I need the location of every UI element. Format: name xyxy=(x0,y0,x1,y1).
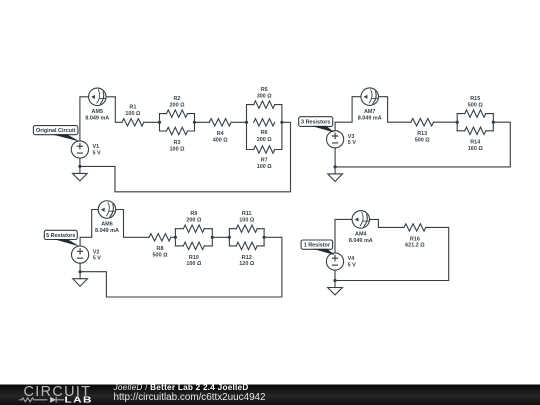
svg-text:100 Ω: 100 Ω xyxy=(257,164,273,170)
svg-text:R14: R14 xyxy=(470,140,480,146)
node L xyxy=(262,236,265,239)
node A xyxy=(158,121,161,124)
svg-text:300 Ω: 300 Ω xyxy=(257,94,273,100)
svg-text:http://circuitlab.com/c6ttx2uu: http://circuitlab.com/c6ttx2uuc4942 xyxy=(114,392,266,403)
svg-text:R11: R11 xyxy=(242,211,252,217)
resistor R13 500 &#937; xyxy=(411,119,434,144)
wire node J to node K xyxy=(212,236,229,238)
svg-text:R12: R12 xyxy=(242,255,252,261)
svg-text:LAB: LAB xyxy=(65,396,93,405)
svg-text:5 V: 5 V xyxy=(93,256,102,262)
wire return loop circuit 2 xyxy=(335,122,510,167)
wire V1 bottom xyxy=(79,158,81,166)
svg-text:V4: V4 xyxy=(348,256,355,262)
svg-text:200 Ω: 200 Ω xyxy=(257,137,273,143)
voltage source V1 5 V xyxy=(71,141,101,158)
svg-text:V3: V3 xyxy=(348,134,355,140)
resistor R7 100 Ohm xyxy=(247,146,282,170)
resistor R10 100 &#937; xyxy=(175,242,212,267)
svg-text:5 Resistors: 5 Resistors xyxy=(46,233,75,239)
resistor R3 100 &#937; xyxy=(160,127,195,152)
wire parallel frame R9/R10 xyxy=(174,229,176,246)
node C xyxy=(245,121,248,124)
resistor R12 120 &#937; xyxy=(229,242,264,267)
svg-text:R2: R2 xyxy=(174,96,181,102)
svg-text:100 Ω: 100 Ω xyxy=(125,111,141,117)
svg-text:R15: R15 xyxy=(470,96,480,102)
wire V3 to AM7 xyxy=(335,97,361,131)
ammeter AM6 8.049 mA xyxy=(95,201,119,234)
svg-text:R13: R13 xyxy=(417,131,427,137)
resistor R15 500 &#937; xyxy=(457,96,493,118)
resistor R8 500 &#937; xyxy=(149,234,171,259)
label 3 Resistors xyxy=(299,117,335,133)
ground xyxy=(328,167,343,182)
wire V4 bottom xyxy=(334,270,336,280)
svg-text:AM4: AM4 xyxy=(355,232,366,238)
svg-text:5 V: 5 V xyxy=(348,140,357,146)
label 1 Resistor xyxy=(301,240,335,255)
resistor R16 621.2 &#937; xyxy=(404,224,426,249)
wire R1 to node A xyxy=(144,121,160,123)
node H xyxy=(333,165,336,168)
voltage source V2 5 V xyxy=(72,246,102,263)
svg-text:R9: R9 xyxy=(190,211,197,217)
svg-text:500 Ω: 500 Ω xyxy=(468,102,484,108)
svg-text:V2: V2 xyxy=(93,249,100,255)
wire return loop circuit 1 xyxy=(80,122,291,192)
svg-text:5 V: 5 V xyxy=(93,150,102,156)
svg-text:R7: R7 xyxy=(261,157,268,163)
svg-text:1 Resistor: 1 Resistor xyxy=(304,243,331,249)
svg-text:JoelleD / Better Lab 2 2.4 Joe: JoelleD / Better Lab 2 2.4 JoelleD xyxy=(113,383,249,392)
ammeter AM5 8.049 mA xyxy=(85,88,109,121)
resistor R11 100 &#937; xyxy=(229,211,264,232)
ground xyxy=(328,281,343,296)
wire return loop circuit 4 xyxy=(335,227,449,280)
ammeter AM7 8.049 mA xyxy=(358,88,382,121)
wire R13 to node F xyxy=(434,121,458,123)
svg-text:8.049 mA: 8.049 mA xyxy=(358,115,382,121)
svg-text:8.049 mA: 8.049 mA xyxy=(349,238,373,244)
ammeter AM4 8.049 mA xyxy=(349,211,373,244)
resistor R14 160 &#937; xyxy=(457,127,493,152)
wire R8 to node I xyxy=(171,236,176,238)
svg-text:V1: V1 xyxy=(93,144,100,150)
svg-text:100 Ω: 100 Ω xyxy=(186,261,202,267)
svg-text:200 Ω: 200 Ω xyxy=(170,102,186,108)
resistor R9 200 &#937; xyxy=(175,211,212,232)
svg-text:400 Ω: 400 Ω xyxy=(213,138,229,144)
svg-text:8.049 mA: 8.049 mA xyxy=(85,115,109,121)
voltage source V4 5 V xyxy=(326,253,356,270)
wire V4 to AM4 xyxy=(335,219,352,253)
resistor R6 200 Ohm xyxy=(254,119,275,143)
svg-text:8.049 mA: 8.049 mA xyxy=(95,228,119,234)
wire parallel frame R2/R3 xyxy=(158,114,160,131)
wire return loop circuit 3 xyxy=(80,237,282,297)
wire AM7 to R13 xyxy=(379,97,411,123)
svg-text:200 Ω: 200 Ω xyxy=(186,218,202,224)
wire parallel frame R11/R12 xyxy=(228,229,230,246)
node M xyxy=(79,270,82,273)
svg-text:100 Ω: 100 Ω xyxy=(170,146,186,152)
node D xyxy=(280,121,283,124)
svg-text:R10: R10 xyxy=(189,255,199,261)
svg-text:AM6: AM6 xyxy=(101,222,112,228)
node E xyxy=(78,165,81,168)
svg-text:R1: R1 xyxy=(129,105,136,111)
svg-text:120 Ω: 120 Ω xyxy=(239,261,255,267)
wire V1 to AM5 xyxy=(80,97,89,141)
svg-text:R4: R4 xyxy=(217,131,224,137)
svg-text:AM5: AM5 xyxy=(92,109,103,115)
svg-text:R6: R6 xyxy=(261,130,268,136)
node G xyxy=(492,121,495,124)
svg-text:R8: R8 xyxy=(157,246,164,252)
svg-text:160 Ω: 160 Ω xyxy=(468,146,484,152)
ground xyxy=(73,272,88,287)
node F xyxy=(456,121,459,124)
svg-text:Original Circuit: Original Circuit xyxy=(36,128,75,134)
svg-text:5 V: 5 V xyxy=(348,262,357,268)
resistor R2 200 &#937; xyxy=(160,96,195,118)
svg-text:R3: R3 xyxy=(174,140,181,146)
label 5 Resistors xyxy=(44,230,80,246)
resistor R4 400 &#937; xyxy=(209,119,231,144)
node B xyxy=(193,121,196,124)
node K xyxy=(228,236,231,239)
resistor R1 100 &#937; xyxy=(122,105,144,127)
svg-text:621.2 Ω: 621.2 Ω xyxy=(405,243,425,249)
svg-text:AM7: AM7 xyxy=(364,109,375,115)
svg-text:R5: R5 xyxy=(261,87,268,93)
node J xyxy=(211,236,214,239)
wire R4 to node C xyxy=(231,121,246,123)
svg-text:100 Ω: 100 Ω xyxy=(239,218,255,224)
node N xyxy=(333,279,336,282)
wire triple box left frame xyxy=(245,105,247,150)
svg-text:3 Resistors: 3 Resistors xyxy=(301,120,330,126)
wire node B to R4 xyxy=(195,121,210,123)
footer bar xyxy=(0,385,540,405)
node I xyxy=(174,236,177,239)
label Original Circuit xyxy=(33,126,80,142)
CircuitLab logo resistor-diode glyph xyxy=(19,397,64,403)
voltage source V3 5 V xyxy=(326,131,356,148)
ground xyxy=(73,166,88,181)
wire AM5 to R1 xyxy=(106,97,122,123)
svg-text:500 Ω: 500 Ω xyxy=(153,253,169,259)
wire AM6 to R8 xyxy=(116,210,149,238)
resistor R5 300 Ohm xyxy=(247,87,282,108)
wire V2 bottom xyxy=(79,263,81,272)
svg-text:500 Ω: 500 Ω xyxy=(415,138,431,144)
wire AM4 to R16 xyxy=(370,219,404,227)
svg-text:R16: R16 xyxy=(410,236,420,242)
wire V3 bottom xyxy=(334,148,336,167)
wire V2 to AM6 xyxy=(80,210,98,247)
wire parallel frame R15/R14 xyxy=(456,114,458,131)
